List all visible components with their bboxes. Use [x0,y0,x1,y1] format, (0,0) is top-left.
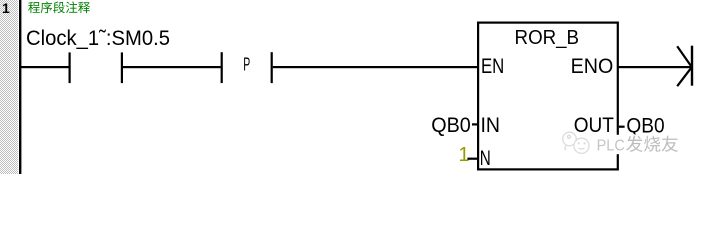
svg-text:IN: IN [481,114,501,137]
contact Clock_1~:SM0.5 [69,52,124,83]
pin tick IN [472,123,478,125]
svg-text:1: 1 [2,0,10,16]
wire contact to P contact [123,66,221,68]
watermark text PLC发烧友 [597,136,678,155]
svg-text:ROR_B: ROR_B [515,27,580,49]
svg-text:QB0: QB0 [431,114,471,137]
svg-text:OUT: OUT [574,114,614,137]
svg-text:1: 1 [458,144,469,166]
watermark halo [594,135,682,154]
function block ROR_B outline [478,23,618,170]
left power rail [19,0,21,174]
svg-text:P: P [243,55,250,75]
svg-text:N: N [480,147,491,170]
wire ENO to arrow [618,66,692,68]
network comment 程序段注释 [28,2,90,14]
pin tick OUT [619,126,625,128]
rung continuation arrow [677,46,693,86]
pin tick N [467,158,477,160]
network gutter [0,0,18,174]
svg-text:ENO: ENO [571,55,614,78]
svg-text:QB0: QB0 [626,115,664,138]
wire P to block EN [273,66,477,68]
edge contact P [221,52,273,83]
wire rail to contact [21,66,69,68]
svg-text:PLC: PLC [597,137,625,154]
watermark logo [563,132,589,153]
svg-text:Clock_1˜:SM0.5: Clock_1˜:SM0.5 [26,27,170,50]
svg-text:EN: EN [481,55,504,78]
